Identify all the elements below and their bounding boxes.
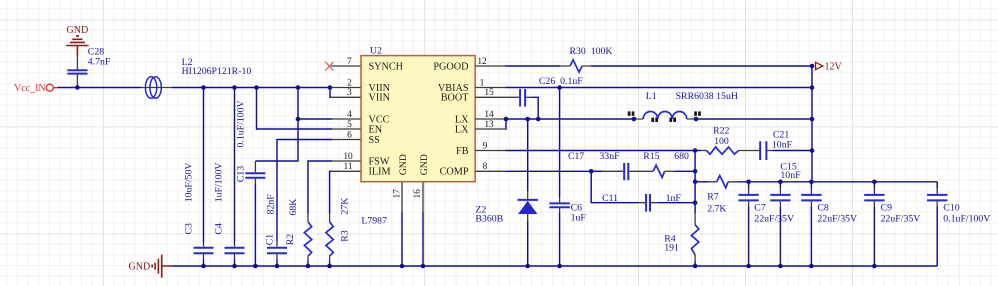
wire output rail [737,181,937,183]
pin 17 stub [401,182,403,212]
pin 11 stub [331,170,361,172]
svg-text:10uF/50V: 10uF/50V [184,163,195,203]
svg-text:C17: C17 [568,151,584,162]
ground GND bottom [129,255,173,278]
wire FB vertical [694,151,696,214]
svg-text:C8: C8 [817,202,829,213]
resistor R3 27K [326,198,351,266]
svg-text:191: 191 [664,243,679,254]
op-amp U1: regulator IC U2 L7987 body [361,46,475,227]
power port 12V [816,62,843,73]
svg-text:R7: R7 [707,192,719,203]
wire VCC to pin 4 [298,118,332,120]
svg-text:L7987: L7987 [361,216,387,227]
pin 14 stub [475,118,505,120]
svg-text:GND: GND [398,154,409,175]
svg-text:9: 9 [483,141,488,151]
pin 12 stub [475,65,505,67]
svg-text:1uF: 1uF [571,213,587,224]
capacitor C4 1uF/100V [214,88,245,267]
svg-text:B360B: B360B [475,213,503,224]
svg-text:GND: GND [129,261,151,272]
svg-text:C13: C13 [236,166,247,182]
svg-text:ILIM: ILIM [369,167,391,178]
pin 9 stub [475,150,505,152]
wire VCC branch [255,88,298,162]
svg-text:5: 5 [347,120,352,130]
capacitor C11 1nF [591,171,695,211]
svg-text:Vcc_IN: Vcc_IN [14,83,46,94]
wire LX line [505,118,634,120]
capacitor C10 0.1uF/100V [927,182,990,266]
capacitor C3 10uF/50V [184,88,214,267]
svg-text:C9: C9 [881,202,893,213]
pin 5 stub [331,128,361,130]
svg-text:1uF/100V: 1uF/100V [214,163,225,203]
svg-text:16: 16 [413,189,423,199]
capacitor C15 10nF [770,162,801,266]
svg-text:0.1uF/100V: 0.1uF/100V [236,100,247,147]
svg-text:14: 14 [484,110,494,120]
svg-text:15: 15 [484,88,494,98]
wire EN branch [257,88,333,130]
svg-text:22uF/35V: 22uF/35V [881,214,921,225]
svg-text:EN: EN [369,124,383,135]
svg-text:22uF/35V: 22uF/35V [817,214,857,225]
svg-text:GND: GND [67,25,89,36]
svg-text:SYNCH: SYNCH [369,61,404,72]
svg-text:COMP: COMP [440,167,469,178]
capacitor C6 1uF [549,88,586,267]
pin 4 stub [331,118,361,120]
svg-text:C7: C7 [754,202,766,213]
pin 10 stub [331,160,361,162]
capacitor C1 82nF [265,194,288,266]
svg-text:0.1uF/100V: 0.1uF/100V [943,214,990,225]
svg-text:C11: C11 [602,193,618,204]
ground GND top [66,25,89,56]
capacitor C21 10nF [760,130,812,160]
svg-text:GND: GND [419,154,430,175]
wire FSW branch [308,161,332,213]
svg-text:33nF: 33nF [599,151,620,162]
svg-text:FB: FB [456,146,469,157]
svg-text:27K: 27K [340,198,351,215]
svg-text:6: 6 [347,130,352,140]
svg-text:8: 8 [483,162,488,172]
capacitor C7 22uF/35V [738,182,794,266]
resistor R22 100 [695,126,759,155]
wire bead L2 to pin 2 [172,87,332,89]
wire pin 16 to rail [422,212,424,266]
svg-text:68K: 68K [288,199,299,216]
svg-text:2.7K: 2.7K [707,203,726,214]
svg-text:R3: R3 [340,230,351,242]
svg-text:1nF: 1nF [666,193,682,204]
wire Vcc_IN to bead L2 [58,87,141,89]
resistor R30 100K [561,46,613,72]
svg-text:4: 4 [347,110,352,120]
wire COMP line [505,170,591,172]
no-connect X pin 7 [325,62,333,71]
wire VBIAS line [505,87,812,89]
pin 3 stub [331,96,361,98]
diode Z2 B360B [475,119,538,266]
capacitor C26 0.1uF [505,76,583,106]
svg-text:LX: LX [455,124,469,135]
svg-text:PGOOD: PGOOD [433,61,468,72]
capacitor C9 22uF/35V [864,182,920,266]
capacitor C17 33nF [568,151,653,180]
wire ILIM branch [330,171,332,213]
svg-text:C10: C10 [943,202,959,213]
resistor R4 191 [664,213,699,266]
svg-text:SRR6038 15uH: SRR6038 15uH [676,91,738,102]
svg-text:BOOT: BOOT [441,93,470,104]
svg-text:C4: C4 [214,223,225,235]
wire pin13 link [504,119,507,129]
svg-text:L1: L1 [646,91,657,102]
inductor L1 SRR6038 [628,91,738,122]
svg-text:2: 2 [347,78,352,88]
svg-text:R22: R22 [713,126,729,137]
svg-text:10: 10 [343,152,353,162]
wire FB line [505,150,695,152]
resistor R7 2.7K [695,176,737,215]
pin 7 SYNCH stub [331,65,361,67]
svg-text:R30 100K: R30 100K [570,46,613,57]
svg-text:22uF/35V: 22uF/35V [754,214,794,225]
pin 13 stub [475,128,505,130]
svg-text:4.7nF: 4.7nF [88,57,111,68]
svg-text:VIIN: VIIN [369,93,391,104]
svg-text:HI1206P121R-10: HI1206P121R-10 [182,66,252,77]
wire C26 to LX [532,97,538,119]
wire SS branch [277,140,332,242]
svg-text:11: 11 [343,162,352,172]
inductor L2 ferrite bead [141,57,251,98]
svg-text:82nF: 82nF [266,194,277,215]
svg-text:10nF: 10nF [780,170,801,181]
pin 2 stub [331,87,361,89]
svg-text:SS: SS [369,135,381,146]
pin 6 stub [331,139,361,141]
wire pin 17 to rail [401,212,403,266]
svg-text:10nF: 10nF [772,139,793,150]
svg-text:12V: 12V [825,62,843,73]
junction C28/main [75,85,80,90]
svg-text:U2: U2 [370,46,382,57]
svg-text:R2: R2 [285,234,296,246]
svg-text:1: 1 [480,78,485,88]
wire pin2/pin3 link [330,88,332,98]
capacitor C8 22uF/35V [801,182,857,266]
svg-text:17: 17 [392,189,402,199]
wire PGOOD to R30 [505,65,560,67]
pin 8 stub [475,170,505,172]
svg-text:680: 680 [674,151,689,162]
svg-text:12: 12 [477,57,487,67]
svg-text:C1: C1 [265,234,276,246]
pin 16 stub [422,182,424,212]
resistor R2 68K [285,199,312,266]
capacitor C13 0.1uF/100V [236,100,266,266]
wire L1 to 12V vertical [696,118,812,120]
svg-text:13: 13 [484,120,494,130]
capacitor C28 4.7nF [67,47,111,88]
pin 15 stub [475,96,505,98]
svg-text:7: 7 [347,57,352,67]
svg-text:R15: R15 [643,151,659,162]
svg-text:C26 0.1uF: C26 0.1uF [539,76,583,87]
wire 12V vertical [811,66,813,182]
wire ground rail [172,265,937,267]
resistor R15 680 [643,151,695,178]
svg-text:C3: C3 [184,223,195,235]
pin 1 stub [475,87,505,89]
port Vcc_IN [14,83,58,94]
svg-text:3: 3 [347,88,352,98]
svg-text:100: 100 [714,136,729,147]
wire R30 to 12V node [591,65,812,67]
